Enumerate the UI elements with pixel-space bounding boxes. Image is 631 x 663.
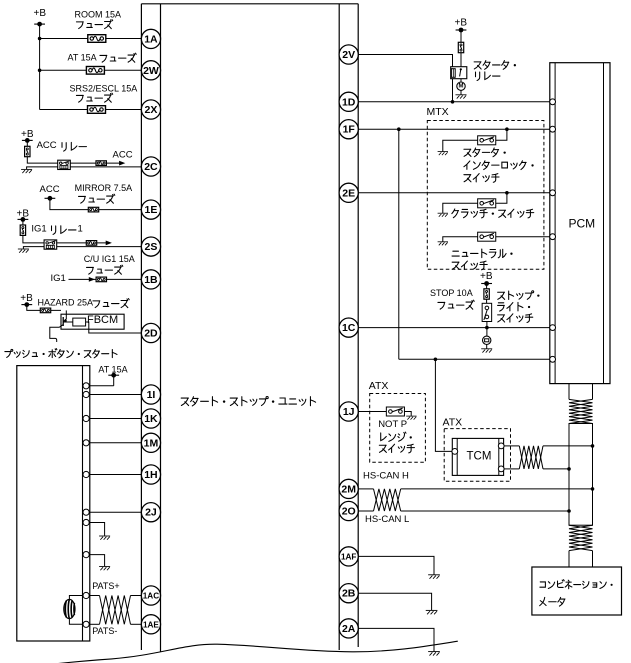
svg-text:ATX: ATX (369, 380, 389, 392)
labels ストップ・ライト・スイッチ (498, 291, 540, 300)
push button start unit box (17, 366, 90, 641)
wire 1F to PCM (358, 128, 550, 130)
svg-text:1I: 1I (147, 389, 156, 401)
relay contact (460, 68, 462, 70)
transistor inside FBCM (65, 310, 67, 318)
unit label (181, 396, 315, 405)
switch to ground (443, 203, 478, 213)
connector 1D (339, 92, 358, 111)
relay ACC リレー (58, 160, 71, 169)
wire (26, 140, 28, 146)
connector 2D (141, 323, 160, 342)
svg-text:2V: 2V (342, 49, 355, 61)
fuse SRS2/ESCL 15A (88, 106, 106, 114)
svg-text:AT 15A: AT 15A (98, 364, 127, 374)
fuse STOP 10A (484, 289, 489, 299)
connector 1C (339, 318, 358, 337)
wire 1C to PCM (358, 327, 550, 329)
PATS twisted pair (100, 596, 131, 625)
connector 1J (339, 402, 358, 421)
wire FBCM to 2D (86, 322, 142, 333)
ATX dashed box 1 (370, 394, 426, 463)
connector 2S (141, 237, 160, 256)
push button start unit label (5, 349, 117, 358)
ground (21, 169, 32, 173)
svg-text:IG1: IG1 (51, 273, 66, 284)
label クラッチ・スイッチ (452, 209, 534, 218)
fusible link (20, 225, 25, 235)
trunk box (569, 424, 593, 526)
connector 2X (141, 100, 160, 119)
wire 2M (358, 488, 373, 490)
switch to ground (443, 140, 478, 151)
wire to 1H (90, 474, 142, 476)
svg-text:1C: 1C (342, 322, 356, 334)
PCM bottom stub (568, 384, 570, 400)
svg-text:1J: 1J (343, 406, 355, 418)
wire (22, 219, 24, 225)
svg-text:STOP 10A: STOP 10A (430, 288, 473, 298)
svg-text:1E: 1E (145, 204, 158, 216)
svg-text:ACC: ACC (113, 150, 133, 161)
wire 2E to PCM (358, 192, 550, 194)
svg-text:AT 15A: AT 15A (68, 53, 97, 63)
push-button unit terminal 385.8 (83, 383, 89, 389)
PCM terminals (550, 99, 556, 105)
svg-text:SRS2/ESCL 15A: SRS2/ESCL 15A (70, 84, 138, 94)
connector 1AE (141, 615, 160, 634)
svg-text:MTX: MTX (427, 106, 449, 118)
svg-text:TCM: TCM (467, 451, 492, 463)
PATS+ wire (90, 595, 100, 597)
svg-text:1H: 1H (144, 469, 157, 481)
long drop wire from 1F line (398, 129, 400, 359)
svg-text:IG1: IG1 (31, 223, 46, 234)
connector 1F (339, 120, 358, 139)
connector 1A (141, 29, 160, 48)
continuation hook (56, 338, 57, 342)
wire (27, 305, 61, 311)
svg-text:2A: 2A (342, 623, 356, 635)
connector 2A (339, 619, 358, 638)
wire to 1A (40, 38, 142, 40)
wire to 1E (50, 198, 141, 209)
svg-text:1F: 1F (343, 124, 356, 136)
connector 2W (141, 61, 160, 80)
svg-text:2E: 2E (342, 187, 355, 199)
AT 15A feed into unit (90, 385, 114, 387)
relay IG1 リレー 1 (44, 240, 57, 249)
connector 1M (141, 433, 160, 452)
connector 1I (141, 385, 160, 404)
push-button unit terminal 474.5 (83, 471, 89, 477)
svg-text:2B: 2B (342, 588, 356, 600)
immobilizer antenna coil (69, 596, 83, 600)
wire 1AF to ground (358, 556, 434, 574)
fuse C/U IG1 15A (96, 277, 106, 282)
svg-text:1AE: 1AE (143, 620, 159, 629)
connector 2J (141, 503, 160, 522)
svg-text:1D: 1D (342, 96, 356, 108)
svg-text:PATS-: PATS- (92, 626, 117, 636)
svg-text:1B: 1B (144, 274, 158, 286)
PATS- wire (90, 623, 100, 625)
fuse (86, 241, 96, 246)
connector 1B (141, 270, 160, 289)
push-button unit terminal 394.5 (83, 391, 89, 397)
svg-text:2S: 2S (145, 241, 158, 253)
labels スタータ・インターロック・スイッチ (464, 148, 506, 157)
svg-text:+B: +B (480, 271, 493, 282)
wire to 1C line (486, 322, 488, 337)
labels ニュートラル・スイッチ (452, 249, 513, 258)
svg-text:2C: 2C (144, 161, 158, 173)
fuse MIRROR 7.5A (88, 207, 98, 212)
TCM terminals (452, 449, 458, 455)
connector 2E (339, 183, 358, 202)
ATX dashed box 2 (444, 429, 510, 482)
push-button unit terminal 595.5 (83, 592, 89, 598)
wire neutral switch to PCM (496, 236, 550, 238)
drop to TCM (435, 359, 452, 451)
ground (18, 249, 29, 253)
stop light switch (482, 303, 492, 321)
svg-text:2J: 2J (145, 507, 157, 519)
connector 2V (339, 45, 358, 64)
switch to ground (443, 237, 478, 242)
svg-text:HAZARD 25A: HAZARD 25A (38, 297, 94, 307)
svg-text:ACC: ACC (40, 184, 60, 195)
connector 2M (339, 479, 358, 498)
wire 2O (358, 510, 373, 512)
meter stub (568, 551, 570, 567)
neutral switch (478, 232, 496, 241)
push-button unit terminal 522.5 (83, 519, 89, 525)
fuse ROOM 15A (88, 35, 106, 43)
wire to 1B (69, 278, 142, 280)
svg-text:2W: 2W (143, 65, 159, 77)
svg-text:ROOM 15A: ROOM 15A (75, 10, 122, 20)
combination meter box (532, 567, 622, 615)
starter relay coil lower wire to 1D line (452, 78, 454, 102)
wire to 1M (90, 442, 142, 444)
HS-CAN twisted pair (374, 489, 401, 511)
wire to 2J (90, 511, 142, 513)
TCM twisted pair (519, 446, 543, 469)
resistor inside FBCM (73, 318, 86, 326)
svg-text:FBCM: FBCM (87, 314, 118, 326)
fuse (96, 161, 106, 166)
wire (1F drop) to PCM lower terminal (399, 358, 550, 360)
svg-text:1M: 1M (144, 437, 159, 449)
connector 2C (141, 157, 160, 176)
switch to ground (405, 412, 412, 416)
svg-text:1K: 1K (144, 413, 158, 425)
svg-text:HS-CAN H: HS-CAN H (363, 471, 409, 482)
relay coil (left edge) (451, 69, 455, 78)
starter relay box (451, 67, 467, 79)
clutch switch drop (496, 193, 507, 204)
svg-text:2O: 2O (342, 506, 356, 518)
PCM box (550, 63, 610, 384)
connector 2O (339, 501, 358, 520)
svg-text:MIRROR 7.5A: MIRROR 7.5A (75, 183, 133, 193)
svg-text:+B: +B (34, 8, 47, 19)
fuse HAZARD 25A (40, 308, 50, 313)
fusible link (25, 146, 30, 156)
svg-text:2X: 2X (145, 104, 158, 116)
svg-text:C/U IG1 15A: C/U IG1 15A (84, 254, 135, 264)
wire 1D to PCM (358, 101, 550, 103)
feed arrow (106, 241, 112, 246)
svg-text:M: M (459, 84, 464, 90)
connector 1AC (141, 586, 160, 605)
twisted pair (vertical) 1 (569, 399, 593, 423)
svg-text:1AC: 1AC (143, 592, 159, 601)
TCM box (452, 438, 503, 475)
wire coil to 2C (70, 166, 141, 168)
wire switch out with fuse (57, 242, 106, 244)
wire 2V to starter relay coil (358, 55, 452, 69)
wire to 1K (90, 418, 142, 420)
twisted pair (vertical) 2 (569, 525, 593, 550)
fuse AT 15A (86, 67, 104, 75)
push-button unit terminal 512.2 (83, 509, 89, 515)
NOT P range switch (386, 407, 404, 416)
wire to 2W (40, 69, 142, 71)
connector 2B (339, 584, 358, 603)
wire 2A to ground (358, 628, 434, 651)
svg-text:2M: 2M (341, 483, 356, 495)
ground point circle (483, 336, 491, 344)
TCM wires to trunk (504, 445, 519, 447)
svg-text:NOT P: NOT P (378, 419, 407, 430)
svg-text:ACC: ACC (37, 140, 57, 151)
continuation cut wave (45, 641, 458, 663)
svg-text:2D: 2D (144, 328, 158, 340)
wire to relay (23, 235, 44, 243)
relay coil to ground (23, 247, 44, 249)
push-button unit terminal 418.5 (83, 415, 89, 421)
start-stop unit box (141, 3, 358, 5)
clutch switch (478, 199, 496, 208)
svg-text:+B: +B (455, 17, 468, 28)
FBCM box (61, 314, 124, 329)
wire to ground 1 (90, 523, 105, 536)
push-button unit terminal 554.6 (83, 552, 89, 558)
push-button unit terminal 442.8 (83, 440, 89, 446)
wire to 1I (90, 394, 142, 396)
push-button unit terminal 624.3 (83, 621, 89, 627)
wire 1J to switch (358, 411, 386, 413)
wire to relay switch (27, 157, 57, 163)
wire switch out with fuse (70, 162, 119, 164)
fusible link (458, 42, 463, 52)
svg-text:HS-CAN L: HS-CAN L (365, 514, 409, 525)
starter interlock switch drop (496, 129, 507, 140)
wire to 2X (40, 109, 142, 111)
wire 2B to ground (358, 593, 431, 610)
MTX dashed box (427, 121, 544, 270)
starter motor (457, 82, 465, 90)
relay coil to ground (27, 167, 58, 169)
connector 1K (141, 409, 160, 428)
svg-text:ATX: ATX (443, 417, 463, 429)
svg-text:1A: 1A (144, 33, 158, 45)
connector 1AF (339, 547, 358, 566)
wire to ground 2 (90, 555, 105, 567)
svg-text:PATS+: PATS+ (92, 581, 119, 591)
starter interlock switch (478, 136, 496, 145)
svg-text:PCM: PCM (569, 216, 596, 230)
ACC feed arrow (119, 161, 125, 166)
svg-text:1AF: 1AF (341, 552, 356, 561)
wire coil to 2S (57, 246, 142, 248)
wire +B bus (39, 24, 41, 109)
connector 1E (141, 200, 160, 219)
svg-text:1: 1 (78, 223, 83, 234)
connector 1H (141, 465, 160, 484)
starter relay label (474, 61, 516, 70)
